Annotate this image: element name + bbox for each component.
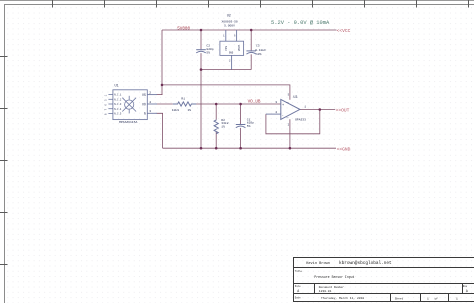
wire lower rail C2-U2gnd-C3 (201, 69, 251, 71)
svg-text:N.C.2: N.C.2 (114, 98, 122, 101)
svg-text:OPA333: OPA333 (295, 119, 306, 122)
U1 right pin stubs VS VO G (147, 95, 157, 114)
svg-text:+: + (282, 104, 284, 108)
wire C2 bottom to lower rail junction (200, 53, 202, 70)
sensor symbol circle with X (122, 96, 136, 114)
svg-text:C3: C3 (256, 45, 260, 48)
wire feedback loop output to IN- (266, 110, 320, 134)
regulator U2 X60003-50 body (220, 41, 244, 55)
svg-text:VS: VS (142, 93, 146, 97)
svg-text:1: 1 (427, 297, 429, 300)
capacitor C1 820p symbol (236, 124, 246, 126)
op-amp IN- stub (266, 113, 281, 115)
svg-text:N.C.1: N.C.1 (114, 94, 122, 97)
svg-text:10%: 10% (256, 53, 262, 56)
svg-text:G: G (144, 112, 146, 116)
U1 left NC pin stubs (108, 95, 113, 114)
svg-text:3: 3 (149, 110, 151, 113)
svg-text:Size: Size (295, 285, 301, 288)
svg-text:3: 3 (275, 101, 277, 104)
wire C3 bottom to lower rail (250, 54, 252, 69)
svg-text:0.10uF: 0.10uF (255, 49, 266, 52)
wire U1 VO to R1 left (157, 103, 173, 105)
wire C2 top connection (200, 30, 202, 49)
svg-text:5.000V: 5.000V (224, 25, 235, 28)
svg-text:A: A (297, 289, 299, 293)
svg-text:5%: 5% (247, 125, 251, 128)
svg-text:VO: VO (142, 102, 146, 106)
wire supply branch to op-amp V+ (162, 85, 290, 100)
wire U1 VS pin to vertical drop (157, 94, 163, 96)
title block outline (294, 257, 474, 302)
wire R2 bottom lead to GND rail (215, 132, 217, 148)
svg-text:Date: Date (295, 297, 301, 300)
svg-text:U3: U3 (293, 96, 297, 100)
svg-text:X60003-50: X60003-50 (222, 21, 238, 24)
svg-text:<<VCC: <<VCC (337, 28, 351, 34)
svg-text:v-: v- (286, 116, 288, 119)
capacitor C3 0.10uF symbol (246, 50, 256, 52)
svg-text:N.C.4: N.C.4 (114, 108, 122, 111)
svg-text:Sheet: Sheet (395, 296, 404, 300)
svg-text:Rev: Rev (463, 285, 468, 288)
svg-text:4: 4 (275, 111, 277, 114)
svg-text:Thursday, March 11, 2010: Thursday, March 11, 2010 (321, 296, 364, 300)
node junction dots (200, 29, 203, 32)
svg-text:U1: U1 (115, 84, 119, 88)
svg-text:-: - (282, 114, 284, 118)
svg-text:N.C.3: N.C.3 (114, 103, 122, 106)
svg-text:4: 4 (149, 101, 151, 104)
wire op-amp V- to GND rail (289, 119, 291, 148)
wire C3 top connection (250, 30, 252, 51)
wire op-amp output to OUT flag (300, 109, 335, 111)
wire vertical drop from rail to U1 VS pin (161, 30, 163, 95)
svg-text:of: of (435, 296, 439, 300)
wire R2 top lead (215, 104, 217, 120)
svg-text:Document Number: Document Number (319, 285, 344, 289)
svg-text:5V000: 5V000 (177, 26, 190, 31)
svg-text:Kevin Brown: Kevin Brown (306, 261, 330, 266)
wire ground drop from lower rail to GND rail (200, 70, 202, 149)
svg-text:Pressure Sensor Input: Pressure Sensor Input (314, 275, 354, 279)
svg-text:>>OUT: >>OUT (336, 107, 350, 113)
svg-text:820p: 820p (206, 48, 213, 51)
op-amp U3 OPA333 triangle (281, 99, 300, 119)
capacitor C2 820p symbol (196, 49, 206, 51)
svg-text:VO_UB: VO_UB (248, 100, 261, 105)
svg-text:1: 1 (304, 106, 306, 109)
wire R1 right to op-amp IN+ (VO_UB net) (196, 103, 281, 105)
resistor R2 33k2 symbol (214, 120, 218, 134)
svg-text:kbrown@sbcglobal.net: kbrown@sbcglobal.net (339, 261, 392, 266)
svg-text:10k9: 10k9 (172, 108, 179, 112)
U2 top pin stubs (225, 30, 227, 41)
node junction at supply branch (161, 84, 164, 87)
svg-text:VIN: VIN (225, 46, 228, 51)
svg-text:R1: R1 (181, 98, 185, 101)
svg-text:Title: Title (295, 270, 303, 273)
wire C1 top lead (240, 104, 242, 124)
svg-text:1: 1 (456, 297, 458, 300)
svg-text:U2: U2 (227, 14, 231, 18)
svg-text:GND: GND (229, 52, 234, 55)
svg-text:VOUT: VOUT (238, 44, 241, 51)
svg-text:N.C.5: N.C.5 (114, 113, 122, 116)
svg-text:1%: 1% (221, 125, 225, 128)
wire C1 bottom lead to GND rail (240, 128, 242, 148)
wire VCC top rail 5V000 net (162, 29, 337, 31)
wire U1 G pin down to ground rail (157, 113, 163, 148)
svg-text:MPXAZ6115A: MPXAZ6115A (119, 120, 137, 124)
svg-text:5.2V - 9.0V @ 10mA: 5.2V - 9.0V @ 10mA (271, 20, 330, 26)
svg-text:1%: 1% (188, 109, 192, 112)
svg-text:1230.01: 1230.01 (319, 290, 332, 293)
sensor U1 MPXAZ6115A body (113, 90, 147, 120)
svg-text:5%: 5% (206, 51, 210, 54)
U2 ground pin stub (231, 55, 233, 69)
svg-text:2: 2 (149, 91, 151, 94)
svg-text:<<GND: <<GND (337, 147, 351, 153)
resistor R1 10k9 symbol (173, 102, 196, 106)
svg-text:A: A (466, 289, 468, 293)
wire GND bottom rail (163, 147, 336, 149)
